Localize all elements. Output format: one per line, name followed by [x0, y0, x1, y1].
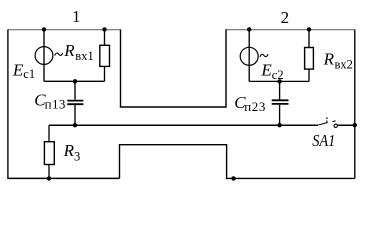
svg-text:3: 3: [74, 149, 80, 163]
wire Rvx2 bottom lead: [308, 69, 310, 81]
junction switch / right border: [353, 123, 357, 127]
wire left border: [7, 30, 9, 179]
wire R3 branch top lead: [48, 125, 50, 142]
wire middle net: [49, 124, 318, 126]
svg-text:R: R: [63, 41, 75, 60]
capacitor C_p13: [67, 101, 83, 105]
svg-text:п13: п13: [45, 96, 66, 111]
wire E_c1 branch: [43, 29, 45, 81]
svg-text:E: E: [12, 61, 24, 80]
junction loop1 / C_p13: [73, 79, 77, 83]
wire bottom left: [7, 177, 119, 179]
wire E_c2 branch: [248, 29, 250, 81]
wire right border: [354, 30, 356, 179]
wire bottom step: [120, 145, 355, 179]
junction middle / C_p23: [277, 123, 281, 127]
tilde of E_c1: [55, 53, 63, 56]
svg-text:R: R: [323, 50, 335, 69]
wire loop 2 bottom: [249, 80, 309, 82]
junction loop2 / C_p23: [277, 79, 281, 83]
wire C_p13 top lead: [74, 81, 76, 99]
svg-text:E: E: [260, 60, 272, 79]
resistor R3: [44, 142, 54, 165]
junction bottom wire: [231, 176, 235, 180]
junction node 2 / E_c2: [247, 27, 251, 31]
capacitor C_p23: [272, 100, 289, 104]
wire C_p23 top lead: [279, 81, 281, 99]
wire U link between rails: [121, 29, 227, 107]
wire Rvx2 top lead: [308, 29, 310, 47]
resistor Rvx2: [305, 48, 314, 70]
svg-text:SA1: SA1: [312, 131, 335, 150]
svg-text:п23: п23: [244, 99, 266, 114]
junction node 1 / Rvx1: [102, 27, 106, 31]
source E_c2: [240, 47, 258, 65]
wire Rvx1 top lead: [104, 29, 106, 45]
junction bottom / R3: [47, 176, 51, 180]
svg-text:1: 1: [72, 7, 81, 26]
resistor Rvx1: [100, 45, 110, 66]
junction middle / C_p13: [73, 123, 77, 127]
junction node 1 / E_c1: [42, 27, 46, 31]
junction node 2 / Rvx2: [307, 27, 311, 31]
source E_c1: [35, 47, 53, 65]
wire loop 1 bottom: [44, 80, 105, 82]
svg-text:R: R: [63, 141, 75, 160]
svg-text:с1: с1: [23, 67, 35, 81]
tilde of E_c2: [260, 54, 268, 57]
wire top rail left (node 1 rail): [8, 29, 121, 31]
wire R3 bottom lead: [48, 165, 50, 179]
svg-text:вх1: вх1: [75, 49, 93, 63]
wire Rvx1 bottom lead: [104, 66, 106, 81]
wire switch to right border: [338, 124, 355, 126]
wire C_p23 bottom lead: [279, 105, 281, 125]
svg-text:вх2: вх2: [335, 57, 353, 71]
svg-text:2: 2: [281, 8, 290, 27]
wire C_p13 bottom lead: [74, 105, 76, 125]
svg-text:с2: с2: [272, 68, 284, 82]
wire top rail right (node 2 rail): [226, 29, 355, 31]
switch SA1: [318, 117, 337, 127]
